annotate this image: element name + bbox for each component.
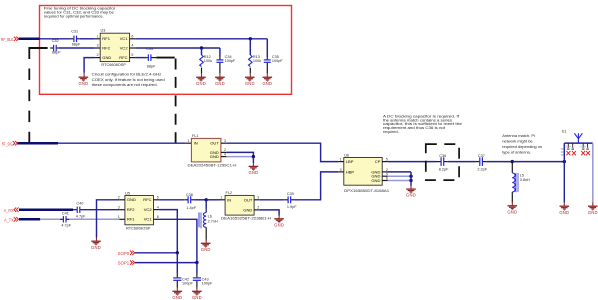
svg-text:Circuit configuration for BLE/: Circuit configuration for BLE/2.4-GHz bbox=[92, 72, 162, 77]
svg-text:RFC: RFC bbox=[143, 197, 151, 202]
svg-text:100pF: 100pF bbox=[225, 59, 236, 63]
wire C32 to U3 RF2 bbox=[60, 47, 95, 49]
wire C41 to U5 RF1 (light) bbox=[69, 218, 119, 220]
svg-text:68pF: 68pF bbox=[52, 51, 61, 55]
capacitor C31 bbox=[71, 38, 74, 40]
wire U5 VC2 to SOP0 bbox=[154, 209, 160, 211]
svg-text:RF_SIG: RF_SIG bbox=[2, 142, 13, 147]
svg-text:2.7nH: 2.7nH bbox=[208, 219, 218, 223]
wire FL1 OUT to DPX LBP bbox=[221, 142, 227, 144]
svg-text:1.9pF: 1.9pF bbox=[287, 205, 297, 209]
svg-text:VC2: VC2 bbox=[144, 207, 153, 212]
svg-text:RTC6608OSP: RTC6608OSP bbox=[126, 227, 151, 231]
svg-text:68pF: 68pF bbox=[72, 42, 81, 46]
svg-text:4: 4 bbox=[157, 205, 159, 209]
svg-text:100pF: 100pF bbox=[272, 59, 283, 63]
wire RF_SIG to FL1 bbox=[58, 142, 186, 144]
dashed DNP box around C36 bbox=[426, 144, 459, 180]
svg-text:100pF: 100pF bbox=[202, 282, 213, 286]
capacitor C41 bbox=[60, 218, 63, 220]
wire FL1 GND pin2 bbox=[221, 151, 227, 153]
wire junction to FL2 IN bbox=[206, 199, 219, 201]
wire antenna right leg (light) bbox=[592, 143, 594, 202]
antenna feed bar bbox=[564, 142, 593, 144]
svg-text:3: 3 bbox=[257, 196, 259, 200]
svg-text:1: 1 bbox=[220, 196, 222, 200]
wire U5 VC1 to SOP1 bbox=[154, 218, 160, 220]
svg-text:68pF: 68pF bbox=[147, 64, 156, 68]
junction L6 bbox=[205, 198, 208, 201]
svg-text:4: 4 bbox=[131, 44, 133, 48]
svg-text:RF1: RF1 bbox=[127, 217, 135, 222]
wire C38 to junction bbox=[195, 199, 207, 201]
svg-text:RTC6608OSP: RTC6608OSP bbox=[101, 63, 126, 67]
svg-text:SOP0: SOP0 bbox=[118, 251, 130, 256]
svg-text:DEA165325BT-2236B1-H: DEA165325BT-2236B1-H bbox=[221, 216, 271, 220]
capacitor C42 bbox=[176, 273, 178, 277]
inductor L6 bbox=[205, 200, 207, 210]
svg-text:DEA202450BT-1299C1-H: DEA202450BT-1299C1-H bbox=[188, 163, 237, 167]
svg-text:1: 1 bbox=[118, 215, 120, 219]
dashed coex line from C33 bbox=[156, 57, 174, 59]
wire C31 to U3 RF1 bbox=[80, 38, 95, 40]
capacitor C37 bbox=[476, 161, 479, 163]
svg-text:required for optimal performan: required for optimal performance. bbox=[44, 14, 104, 19]
wire FL2 OUT to C39 bbox=[254, 199, 260, 201]
svg-text:2.2pF: 2.2pF bbox=[477, 168, 487, 172]
svg-text:C36: C36 bbox=[439, 154, 446, 158]
svg-text:2: 2 bbox=[257, 206, 259, 210]
wire RF_BLE to C31 bbox=[40, 38, 71, 40]
wire U3 VC1 row bbox=[130, 38, 136, 40]
svg-text:C32: C32 bbox=[52, 39, 59, 43]
junction DPX gnd 4 bbox=[409, 175, 412, 178]
wire A_RX entry (thick) bbox=[19, 208, 73, 211]
svg-text:RF2: RF2 bbox=[127, 207, 135, 212]
svg-text:VC1: VC1 bbox=[120, 36, 129, 41]
junction FL1 gnd bbox=[252, 155, 255, 158]
wire DPX GND pin2 bbox=[382, 171, 388, 173]
ground antenna left bbox=[559, 206, 569, 215]
wire DPX GND pin6 (light) bbox=[382, 180, 388, 182]
svg-text:Antenna match. Pi: Antenna match. Pi bbox=[502, 133, 535, 138]
svg-text:1: 1 bbox=[97, 34, 99, 38]
wire U5 GND pin to ground bbox=[119, 199, 125, 201]
wire RF_SIG entry (thick) bbox=[17, 142, 58, 145]
ground L5 bbox=[507, 206, 517, 215]
svg-text:GND: GND bbox=[243, 207, 252, 212]
svg-text:RF1: RF1 bbox=[102, 36, 110, 41]
ground R12 bbox=[196, 77, 206, 86]
dashed coex line horizontal bbox=[29, 47, 48, 49]
wire A_TX to C41 (light) bbox=[40, 218, 60, 220]
capacitor C38 bbox=[184, 199, 187, 201]
wire U3 RFC to C33 bbox=[130, 57, 136, 59]
svg-text:6: 6 bbox=[157, 215, 159, 219]
ground FL1 bbox=[248, 166, 258, 175]
ground antenna right bbox=[588, 206, 598, 215]
filter FL1 DEA202450BT bbox=[191, 138, 221, 162]
ground DPX bbox=[406, 189, 416, 198]
wire FL1 GND pin4 (light) bbox=[221, 156, 227, 158]
capacitor C40 bbox=[73, 209, 77, 211]
junction L5 bbox=[511, 160, 514, 163]
svg-text:5: 5 bbox=[157, 196, 159, 200]
junction VC2/R12 bbox=[200, 46, 203, 49]
wire C39 to DPX HBP bbox=[295, 172, 339, 200]
svg-text:3.8nH: 3.8nH bbox=[520, 178, 530, 182]
svg-text:0.6nH: 0.6nH bbox=[580, 146, 587, 149]
svg-text:GND: GND bbox=[127, 197, 136, 202]
svg-text:C37: C37 bbox=[478, 154, 485, 158]
svg-text:1: 1 bbox=[188, 139, 190, 143]
svg-text:4.7pF: 4.7pF bbox=[76, 214, 86, 218]
svg-text:C39: C39 bbox=[287, 192, 294, 196]
wire C36 to C37 bbox=[448, 161, 476, 163]
svg-text:2: 2 bbox=[97, 53, 99, 57]
svg-text:type of antenna.: type of antenna. bbox=[502, 150, 531, 155]
diplexer U6 DPX165850DT bbox=[344, 158, 382, 186]
svg-text:6: 6 bbox=[386, 176, 388, 180]
junction antenna bbox=[563, 160, 566, 163]
svg-text:VC2: VC2 bbox=[120, 45, 129, 50]
svg-text:GND: GND bbox=[210, 154, 219, 159]
ground C42 bbox=[172, 291, 182, 300]
svg-text:IN: IN bbox=[194, 141, 198, 146]
svg-text:A_TX: A_TX bbox=[4, 218, 14, 223]
wire SOP0 bbox=[135, 252, 178, 254]
svg-text:3: 3 bbox=[118, 205, 120, 209]
capacitor C32 bbox=[50, 47, 53, 49]
inductor L5 bbox=[511, 162, 513, 173]
svg-text:VC1: VC1 bbox=[144, 217, 153, 222]
capacitor C34 bbox=[219, 48, 221, 57]
ground C43 bbox=[192, 291, 202, 300]
svg-text:C41: C41 bbox=[62, 211, 69, 215]
svg-text:SOP1: SOP1 bbox=[118, 261, 130, 266]
IC U5 RTC6608OSP bbox=[125, 196, 154, 225]
wire DPX GND pin4 (light) bbox=[382, 175, 388, 177]
junction DPX gnd 6 bbox=[409, 179, 412, 182]
filter FL2 DEA165325BT bbox=[225, 195, 254, 215]
resistor R12 bbox=[201, 48, 203, 55]
svg-text:RFC: RFC bbox=[119, 55, 127, 60]
junction SOP0 bbox=[176, 251, 179, 254]
svg-text:3: 3 bbox=[97, 44, 99, 48]
tiny marks left of antenna leg bbox=[561, 149, 564, 155]
svg-text:U3: U3 bbox=[101, 29, 106, 33]
svg-text:4.7pF: 4.7pF bbox=[61, 224, 71, 228]
svg-text:network might be: network might be bbox=[502, 139, 533, 144]
wire FL2 GND to ground bbox=[254, 209, 260, 211]
capacitor C43 bbox=[196, 273, 198, 277]
svg-text:DPX165850DT-8168A1: DPX165850DT-8168A1 bbox=[344, 189, 389, 193]
svg-text:these components are not requi: these components are not required. bbox=[92, 82, 158, 87]
svg-text:HBP: HBP bbox=[346, 169, 355, 174]
wire U3 GND pin to ground bbox=[95, 57, 101, 59]
dashed coex line vertical (RF_SIG to C32) bbox=[28, 48, 30, 144]
IC U3 RTC6608OSP bbox=[100, 33, 129, 61]
DNP matching stubs bbox=[568, 143, 587, 148]
svg-text:1: 1 bbox=[340, 158, 342, 162]
ground U5 bbox=[91, 241, 101, 250]
svg-text:1.4pF: 1.4pF bbox=[186, 206, 196, 210]
svg-text:IN: IN bbox=[227, 197, 231, 202]
ground R13 bbox=[245, 77, 255, 86]
svg-text:C38: C38 bbox=[186, 193, 193, 197]
svg-text:U5: U5 bbox=[125, 192, 130, 196]
svg-text:RF2: RF2 bbox=[102, 45, 110, 50]
DNP X marks bbox=[566, 151, 570, 155]
ground C35 bbox=[262, 77, 272, 86]
capacitor C35 bbox=[266, 39, 268, 57]
svg-text:GND: GND bbox=[371, 178, 380, 183]
svg-text:C31: C31 bbox=[71, 29, 78, 33]
wire U3 VC2 row bbox=[130, 47, 136, 49]
svg-text:100pF: 100pF bbox=[182, 282, 193, 286]
svg-text:U6: U6 bbox=[344, 154, 349, 158]
svg-text:required depending on: required depending on bbox=[502, 144, 542, 149]
svg-text:LBP: LBP bbox=[346, 159, 354, 164]
ground FL2 bbox=[274, 219, 284, 228]
ground U3 bbox=[78, 77, 88, 86]
svg-text:FL1: FL1 bbox=[192, 134, 199, 138]
wire to antenna bbox=[512, 161, 564, 163]
svg-text:3: 3 bbox=[340, 168, 342, 172]
ground C34 bbox=[215, 77, 225, 86]
ground L6 bbox=[201, 243, 211, 252]
wire RF_BLE entry (thick) bbox=[19, 38, 40, 41]
svg-text:GND: GND bbox=[102, 55, 111, 60]
svg-text:3: 3 bbox=[224, 139, 226, 143]
svg-text:FL2: FL2 bbox=[226, 191, 233, 195]
svg-text:5: 5 bbox=[131, 53, 133, 57]
svg-text:OUT: OUT bbox=[210, 141, 219, 146]
resistor R13 bbox=[249, 39, 251, 55]
svg-text:A_RX: A_RX bbox=[4, 208, 14, 213]
junction VC1/R13 bbox=[249, 37, 252, 40]
wire A_TX entry (thick) bbox=[19, 218, 40, 221]
capacitor C33 bbox=[146, 57, 148, 59]
wire C37 to L5 junction bbox=[486, 161, 512, 163]
svg-text:RF_BLE: RF_BLE bbox=[1, 37, 14, 42]
junction SOP1 bbox=[195, 261, 198, 264]
svg-text:E1: E1 bbox=[562, 129, 567, 133]
wire SOP1 to C43 bbox=[196, 263, 198, 274]
svg-text:8.2pF: 8.2pF bbox=[439, 168, 449, 172]
svg-text:C33: C33 bbox=[146, 47, 153, 51]
wire antenna left leg bbox=[563, 143, 565, 202]
svg-text:C40: C40 bbox=[76, 202, 83, 206]
svg-text:L6: L6 bbox=[208, 214, 212, 218]
wire SOP1 bbox=[135, 262, 197, 264]
svg-text:4: 4 bbox=[224, 153, 226, 157]
svg-text:100k: 100k bbox=[253, 59, 261, 63]
svg-text:0.6nH: 0.6nH bbox=[565, 146, 572, 149]
wire down to ground bbox=[252, 157, 254, 163]
capacitor C36 bbox=[437, 161, 441, 163]
red annotation box bbox=[40, 6, 292, 95]
svg-text:required.: required. bbox=[383, 129, 399, 134]
svg-text:2: 2 bbox=[118, 196, 120, 200]
svg-text:100k: 100k bbox=[204, 59, 212, 63]
svg-text:L5: L5 bbox=[520, 173, 524, 177]
svg-text:5: 5 bbox=[386, 158, 388, 162]
wire DPX CP to C36 bbox=[382, 161, 388, 163]
wire U5 RFC to C38 bbox=[154, 199, 160, 201]
capacitor C39 bbox=[284, 199, 287, 201]
svg-text:OUT: OUT bbox=[244, 197, 253, 202]
svg-text:CP: CP bbox=[375, 159, 381, 164]
svg-text:6: 6 bbox=[131, 34, 133, 38]
wire down to ground bbox=[410, 172, 412, 186]
wire SOP0 to C42 bbox=[176, 253, 178, 274]
wire C40 to U5 RF2 bbox=[84, 209, 119, 211]
